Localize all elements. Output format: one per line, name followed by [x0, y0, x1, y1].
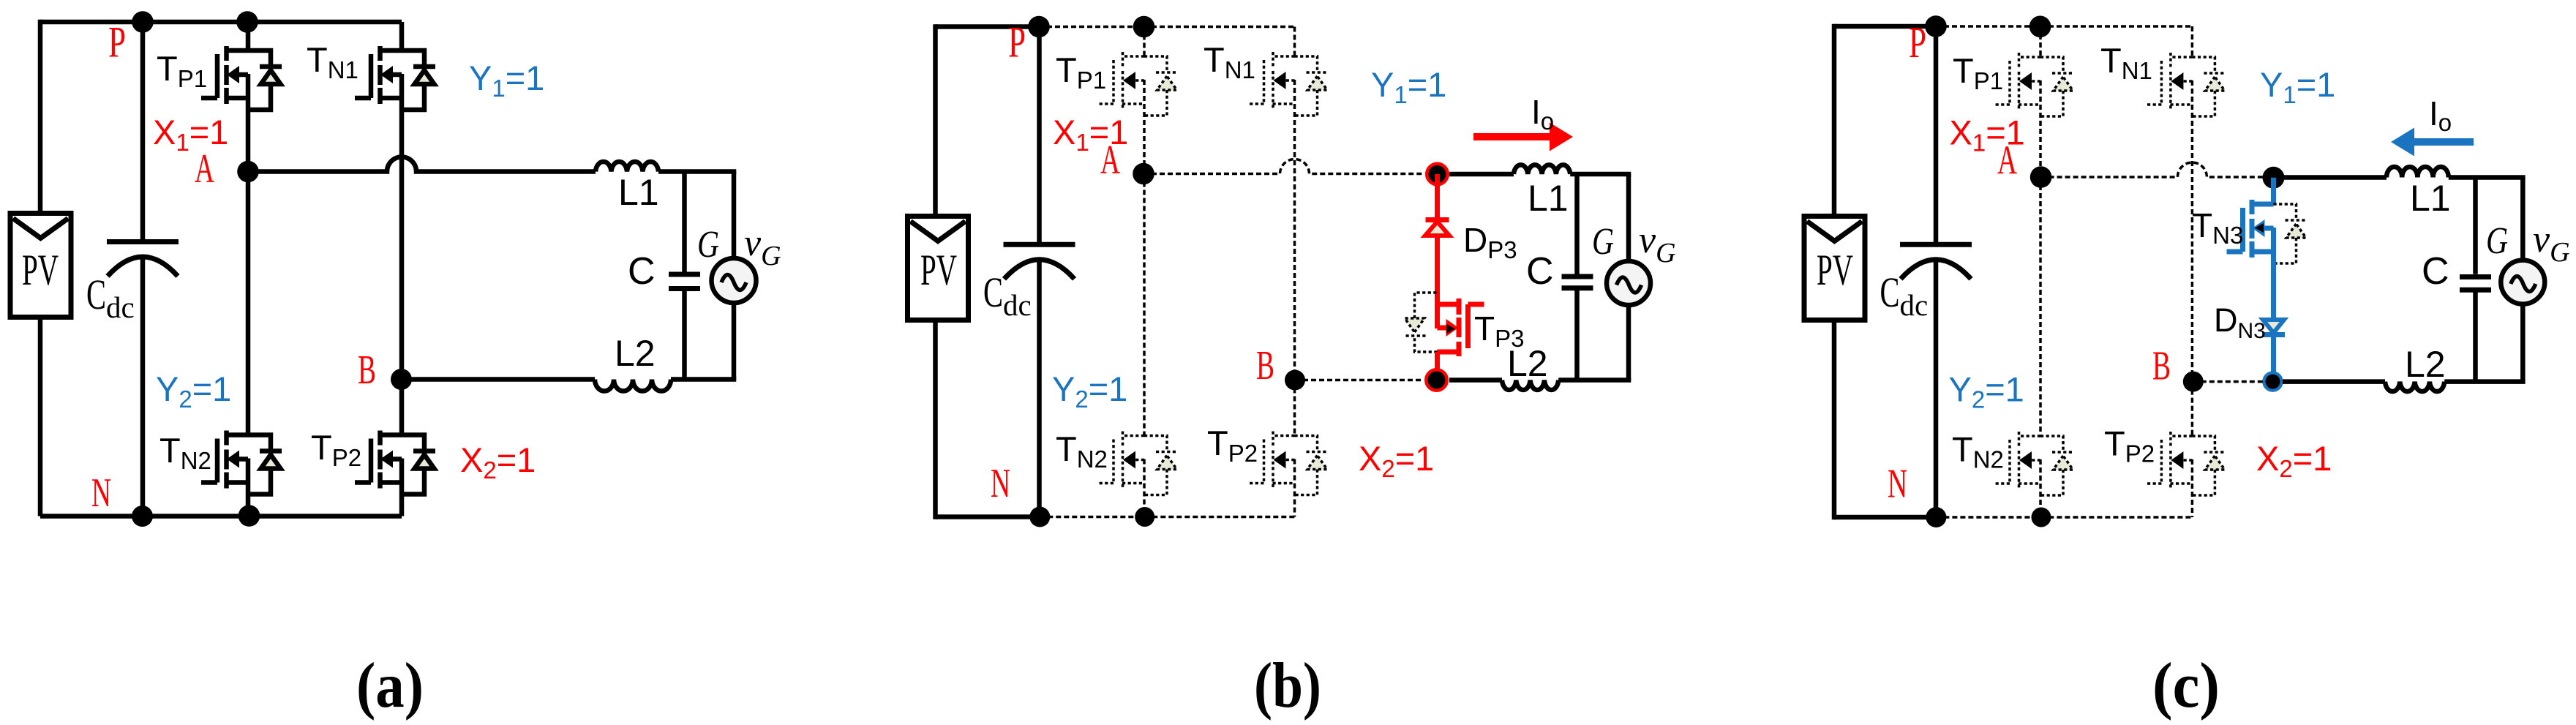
- inductor L2: [1502, 380, 1558, 390]
- svg-text:X2=1: X2=1: [1359, 439, 1434, 482]
- wire TP1 drain: [2039, 26, 2042, 57]
- svg-text:vG: vG: [744, 222, 781, 271]
- node B: [391, 369, 412, 390]
- wire blue node to L2 solid: [2283, 379, 2385, 384]
- PV source: [10, 214, 71, 318]
- svg-text:PV: PV: [920, 246, 957, 294]
- wire TN1 source down to node B: [399, 74, 405, 380]
- svg-text:X1=1: X1=1: [153, 113, 228, 156]
- wire TN2 drain from node A: [1143, 174, 1146, 437]
- inductor L1: [2387, 167, 2449, 178]
- svg-text:Io: Io: [2429, 94, 2452, 136]
- PV source: [908, 217, 969, 320]
- node A: [2030, 166, 2052, 188]
- wire DN3 to blue node: [2271, 335, 2276, 382]
- wire TP2 drain from node B: [2191, 382, 2194, 437]
- svg-text:A: A: [195, 146, 214, 192]
- svg-text:G: G: [2486, 220, 2508, 262]
- node red top: [1427, 164, 1448, 184]
- wire top rail dashed: [1936, 25, 2192, 28]
- wire TN2 source to bottom rail: [1143, 459, 1146, 517]
- wire vG branch top: [2520, 178, 2526, 261]
- wire TP1 source to node A: [1143, 80, 1146, 174]
- svg-text:vG: vG: [1639, 219, 1676, 268]
- capacitor C branch wires: [1574, 174, 1580, 274]
- wire TP2 drain from node B: [1293, 380, 1296, 437]
- node P: [1028, 16, 1050, 38]
- transistor TN3: [2227, 200, 2274, 258]
- transistor TN2: [1097, 432, 1144, 489]
- wire TP2 source to bottom rail: [2191, 459, 2194, 517]
- inductor L2: [595, 380, 671, 391]
- node top of left leg: [1133, 16, 1155, 38]
- svg-text:Cdc: Cdc: [86, 271, 135, 324]
- svg-text:DN3: DN3: [2214, 301, 2266, 343]
- node N: [1029, 507, 1050, 527]
- wire TN2 source to bottom rail: [246, 459, 251, 516]
- svg-text:X2=1: X2=1: [2256, 439, 2332, 482]
- wire TN2 drain from node A: [246, 172, 251, 436]
- svg-text:B: B: [358, 348, 376, 393]
- node blue bottom: [2264, 373, 2282, 391]
- wire TP1 source to node A: [246, 74, 251, 172]
- svg-text:N: N: [91, 470, 111, 516]
- wire left bus top: [933, 24, 938, 217]
- svg-text:P: P: [108, 18, 126, 67]
- arrow Io blue: [2413, 138, 2474, 146]
- svg-text:TN1: TN1: [307, 40, 358, 83]
- wire top rail: [40, 20, 402, 25]
- transistor TN1: [1248, 52, 1295, 110]
- svg-text:(a): (a): [356, 650, 424, 721]
- wire TN1 source down to node B: [2191, 80, 2194, 382]
- wire node B to L2: [402, 377, 596, 382]
- svg-text:vG: vG: [2533, 219, 2570, 268]
- transistor TN2: [201, 431, 248, 489]
- node P: [132, 11, 154, 33]
- transistor TN3 drain wire: [2271, 178, 2276, 203]
- wire bottom rail dashed: [1040, 516, 1294, 519]
- node left leg bottom: [1135, 507, 1154, 527]
- node left leg bottom: [239, 505, 260, 527]
- wire vG branch bottom: [732, 303, 737, 380]
- svg-text:TP2: TP2: [311, 428, 361, 471]
- wire TN1 drain: [2191, 26, 2194, 57]
- svg-text:TP2: TP2: [2104, 424, 2155, 467]
- inductor L1: [1514, 165, 1570, 174]
- wire L1 to corner: [1570, 172, 1631, 177]
- node P: [1925, 15, 1947, 37]
- svg-text:PV: PV: [22, 246, 59, 294]
- svg-text:Y1=1: Y1=1: [1371, 65, 1446, 108]
- node top of left leg: [2029, 16, 2051, 38]
- transistor TP2: [355, 431, 402, 489]
- svg-text:C: C: [1526, 250, 1554, 293]
- svg-text:B: B: [1256, 343, 1274, 388]
- wire TN1 drain: [1293, 27, 1296, 57]
- wire bottom rail: [40, 514, 402, 519]
- node A: [1133, 163, 1154, 185]
- svg-text:TN3: TN3: [2192, 206, 2243, 249]
- wire red node to L2 solid: [1449, 377, 1502, 383]
- svg-text:L2: L2: [615, 333, 656, 374]
- capacitor C: [2460, 274, 2491, 279]
- wire node B to red node dashed: [1295, 379, 1423, 382]
- capacitor C branch wires: [2473, 178, 2478, 274]
- svg-text:DP3: DP3: [1463, 221, 1517, 263]
- wire TP3 to red node bottom: [1435, 352, 1440, 380]
- wire TP2 source to bottom rail: [399, 459, 405, 516]
- svg-text:TP2: TP2: [1207, 424, 1258, 467]
- svg-text:Y2=1: Y2=1: [1052, 369, 1127, 413]
- svg-text:TN2: TN2: [159, 431, 211, 474]
- wire node A to L1 with hop: [248, 157, 596, 172]
- transistor TN1: [355, 46, 402, 104]
- wire bottom rail solid: [936, 514, 1040, 519]
- wire TP2 source to bottom rail: [1293, 459, 1296, 517]
- capacitor Cdc: [1934, 26, 1939, 247]
- wire L2 to corner: [2444, 379, 2525, 384]
- transistor TP1: [1994, 53, 2040, 110]
- wire top rail solid: [936, 24, 1040, 29]
- wire top rail dashed: [1039, 26, 1295, 29]
- wire red node to L1 solid: [1449, 172, 1514, 177]
- wire vG branch top: [1626, 174, 1631, 261]
- transistor TN2: [1994, 432, 2040, 489]
- svg-text:L1: L1: [2410, 178, 2451, 219]
- svg-text:(c): (c): [2152, 650, 2220, 721]
- diode DN3: [2263, 320, 2284, 333]
- svg-text:TP1: TP1: [1056, 50, 1106, 94]
- wire node A to red node with hop: [1144, 159, 1424, 174]
- svg-text:L1: L1: [1528, 178, 1569, 219]
- svg-text:Io: Io: [1531, 93, 1554, 135]
- capacitor Cdc: [140, 22, 146, 244]
- svg-text:Y2=1: Y2=1: [156, 369, 231, 413]
- svg-text:L1: L1: [618, 172, 659, 213]
- capacitor C: [1562, 274, 1593, 279]
- inductor L2: [2385, 382, 2444, 392]
- svg-text:(b): (b): [1254, 650, 1321, 721]
- svg-text:Y1=1: Y1=1: [469, 59, 544, 102]
- node top of blue branch: [2263, 167, 2285, 189]
- wire node B to blue node dashed: [2193, 380, 2263, 383]
- wire TP1 source to node A: [2039, 80, 2042, 177]
- wire left bus bottom: [38, 317, 43, 516]
- svg-text:L2: L2: [2405, 344, 2446, 385]
- node N: [1926, 507, 1946, 527]
- svg-text:L2: L2: [1507, 343, 1548, 384]
- wire left bus top: [1832, 24, 1837, 217]
- node B: [2183, 372, 2204, 392]
- wire vG branch top: [732, 172, 737, 259]
- wire left bus bottom: [1832, 320, 1837, 519]
- node left leg bottom: [2032, 508, 2051, 527]
- wire TN3 source to diode DN3: [2271, 228, 2276, 319]
- node top of left leg: [236, 11, 258, 33]
- wire L1 to corner: [658, 169, 736, 174]
- svg-text:TN2: TN2: [1952, 430, 2004, 473]
- transistor TP2: [1248, 432, 1295, 489]
- svg-text:B: B: [2152, 344, 2171, 389]
- wire L2 to corner: [671, 377, 736, 382]
- wire TN1 drain: [399, 22, 405, 50]
- svg-text:TP1: TP1: [157, 49, 207, 92]
- wire TP1 drain: [246, 22, 251, 50]
- wire TN1 source down to node B: [1293, 80, 1296, 380]
- svg-text:X1=1: X1=1: [1950, 113, 2025, 157]
- capacitor C: [669, 272, 700, 277]
- wire L1 to corner: [2449, 175, 2526, 180]
- wire bottom rail dashed: [1936, 516, 2192, 519]
- wire TP1 drain: [1143, 27, 1146, 57]
- svg-text:P: P: [1008, 18, 1026, 67]
- svg-text:Y1=1: Y1=1: [2260, 65, 2335, 108]
- arrow Io red: [1473, 133, 1551, 140]
- node Cdc bottom: [132, 506, 153, 527]
- wire TP2 drain from node B: [399, 380, 405, 436]
- diode DP3: [1426, 217, 1449, 222]
- wire TN2 drain from node A: [2039, 177, 2042, 437]
- node red bottom: [1427, 370, 1447, 391]
- svg-text:G: G: [1592, 221, 1614, 263]
- wire top rail solid: [1834, 24, 1936, 29]
- svg-text:X2=1: X2=1: [460, 440, 536, 484]
- wire red node down to diode DP3: [1435, 174, 1440, 217]
- svg-text:G: G: [697, 224, 719, 266]
- transistor TP1: [201, 46, 248, 104]
- svg-text:C: C: [2422, 250, 2449, 293]
- svg-text:TN1: TN1: [1203, 40, 1255, 83]
- node A: [237, 161, 259, 183]
- svg-text:C: C: [628, 250, 656, 293]
- wire DP3 to TP3: [1435, 236, 1440, 329]
- transistor TP3: [1438, 298, 1484, 356]
- svg-text:TP1: TP1: [1953, 51, 2003, 94]
- svg-text:N: N: [991, 461, 1010, 506]
- AC source vG: [1607, 261, 1651, 305]
- PV source: [1804, 217, 1865, 320]
- wire TN2 source to bottom rail: [2039, 459, 2042, 517]
- wire vG branch bottom: [1626, 305, 1631, 380]
- AC source vG: [712, 258, 756, 303]
- svg-text:P: P: [1909, 18, 1926, 67]
- inductor L1: [596, 162, 658, 172]
- capacitor Cdc: [1037, 27, 1042, 247]
- svg-text:PV: PV: [1817, 246, 1853, 294]
- svg-text:Y2=1: Y2=1: [1949, 370, 2024, 413]
- wire left bus bottom: [933, 320, 938, 519]
- transistor TP1: [1097, 52, 1144, 110]
- wire L2 to corner: [1558, 377, 1631, 383]
- wire vG branch bottom: [2520, 304, 2526, 382]
- transistor TP2: [2145, 432, 2192, 489]
- svg-text:TN1: TN1: [2100, 41, 2152, 84]
- AC source vG: [2501, 260, 2545, 304]
- node B: [1285, 370, 1305, 391]
- svg-text:X1=1: X1=1: [1053, 113, 1128, 156]
- svg-text:TN2: TN2: [1056, 429, 1108, 473]
- wire bottom rail solid: [1834, 515, 1936, 520]
- wire top node to L1 solid: [2274, 175, 2387, 180]
- capacitor C branch wires: [682, 172, 687, 272]
- wire left bus top: [38, 20, 43, 214]
- svg-text:N: N: [1888, 462, 1907, 507]
- transistor TN1: [2145, 53, 2192, 110]
- wire node A to top node with hop: [2041, 162, 2264, 177]
